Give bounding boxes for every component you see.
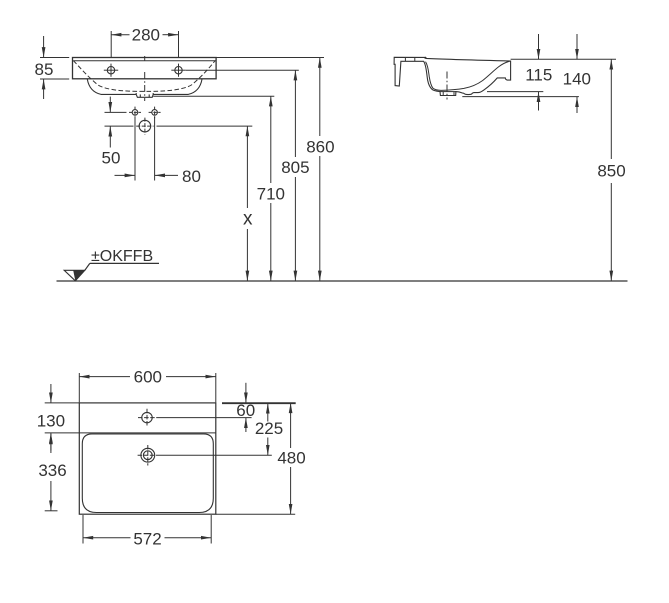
dimension 140 <box>576 34 578 113</box>
svg-text:±OKFFB: ±OKFFB <box>91 248 153 265</box>
dimension 60 <box>245 383 247 432</box>
dashed inner bowl curve <box>73 61 215 92</box>
plan top-right reference line <box>222 402 296 404</box>
tap hole left (front) <box>104 64 118 77</box>
dimension 336 <box>45 434 58 511</box>
label 115 <box>525 66 552 85</box>
fixing hole right <box>149 107 161 119</box>
basin top edge line with left 85-extension and right 860-extension <box>40 57 324 59</box>
svg-text:85: 85 <box>35 60 54 79</box>
label ±OKFFB <box>91 248 153 265</box>
svg-text:115: 115 <box>525 66 552 85</box>
fixing hole left <box>129 107 141 119</box>
dimension 480 <box>290 403 292 514</box>
tap-hole level reference line to 805 <box>186 69 299 71</box>
dimension 130 <box>50 384 52 451</box>
svg-text:140: 140 <box>563 69 591 88</box>
label 85 <box>35 60 54 79</box>
dimension 50 <box>109 97 111 148</box>
side drain foot ticks <box>443 92 454 96</box>
label 480 <box>277 448 305 467</box>
svg-text:280: 280 <box>132 26 160 45</box>
svg-text:50: 50 <box>102 148 121 167</box>
dimension 280 <box>111 31 178 57</box>
115 bottom reference line <box>487 91 543 93</box>
dimension line 710 (vertical) <box>270 96 272 281</box>
tap hole right (front) <box>171 64 185 77</box>
front basin rectangle <box>73 56 217 79</box>
label 140 <box>563 69 591 88</box>
140 bottom reference line <box>462 96 579 98</box>
plan drain hole <box>138 445 158 466</box>
dimension 85 <box>40 36 69 99</box>
svg-text:336: 336 <box>38 461 66 480</box>
svg-text:805: 805 <box>281 158 309 177</box>
label 50 <box>102 148 121 167</box>
dimension 225 <box>267 403 269 455</box>
svg-text:480: 480 <box>277 448 305 467</box>
side foot top line <box>440 91 456 93</box>
label x <box>243 209 253 230</box>
svg-text:130: 130 <box>37 412 65 431</box>
svg-text:572: 572 <box>133 529 161 548</box>
plan tap hole reference line to 60 <box>156 417 251 419</box>
plan top-left extension <box>45 402 80 404</box>
bowl body below front rectangle <box>87 79 202 94</box>
side deck joint ticks <box>405 57 414 61</box>
dimension 572 <box>83 515 211 544</box>
svg-text:80: 80 <box>182 167 201 186</box>
svg-text:710: 710 <box>257 184 285 203</box>
fixing-holes level reference line <box>105 111 127 113</box>
svg-text:x: x <box>243 209 253 230</box>
label 336 <box>38 461 66 480</box>
dimension 80 arrows <box>115 174 179 176</box>
dimension 115 <box>538 34 540 111</box>
label 80 <box>182 167 201 186</box>
dimension line 805 (vertical) <box>294 70 296 281</box>
bowl-bottom level reference line to 710 <box>153 95 274 97</box>
plan outer rectangle <box>79 403 216 514</box>
overflow hole level reference line to x <box>105 125 253 127</box>
svg-text:60: 60 <box>236 401 255 420</box>
floor ground line <box>57 280 628 282</box>
svg-text:225: 225 <box>255 419 283 438</box>
dimension line 860 (vertical) <box>319 58 321 282</box>
label 60 <box>236 401 255 420</box>
side view rear wall inner line <box>426 62 442 91</box>
plan deck separation line <box>45 432 216 434</box>
side corner dot <box>424 57 426 59</box>
front view centerline (dash-dot) <box>144 72 146 101</box>
side view centerline (dash-dot) <box>446 72 448 100</box>
plan tap hole <box>138 409 156 426</box>
label 130 <box>37 412 65 431</box>
plan drain reference line to 225 <box>158 454 272 456</box>
OKFFB floor level marker <box>64 263 159 280</box>
dimension line 850 (vertical) <box>610 59 612 281</box>
svg-text:860: 860 <box>306 137 334 156</box>
svg-text:600: 600 <box>134 367 162 386</box>
side top reference line to 850 <box>511 58 616 60</box>
side view outline <box>394 57 511 95</box>
plan bowl rounded rectangle <box>82 434 213 513</box>
svg-text:850: 850 <box>597 161 625 180</box>
dimension 80 extension lines <box>135 117 155 181</box>
label 600 <box>134 367 162 386</box>
overflow hole (large) <box>136 118 153 135</box>
label 805 <box>281 158 309 177</box>
label 225 <box>255 419 283 438</box>
drain block under front view <box>136 93 153 97</box>
dimension 600 <box>79 373 216 402</box>
label 860 <box>306 137 334 156</box>
label 572 <box>133 529 161 548</box>
label 850 <box>597 161 625 180</box>
side view inner bowl sweep <box>441 61 510 90</box>
label 710 <box>257 184 285 203</box>
label 280 <box>132 26 160 45</box>
dimension line x (vertical) <box>246 126 248 281</box>
plan bottom-right reference line <box>216 513 295 515</box>
